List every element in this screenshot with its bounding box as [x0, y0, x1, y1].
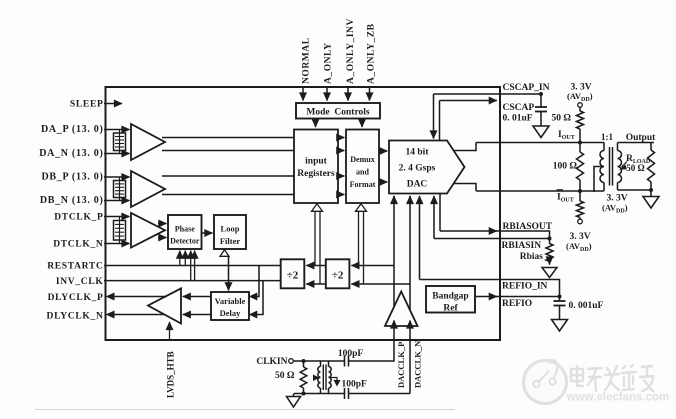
svg-text:www.elecfans.com: www.elecfans.com [566, 392, 669, 404]
svg-text:RBIASOUT: RBIASOUT [503, 222, 553, 232]
svg-text:DTCLK_P: DTCLK_P [54, 213, 103, 223]
svg-text:INV_CLK: INV_CLK [56, 277, 104, 287]
svg-text:CSCAP: CSCAP [503, 103, 535, 113]
svg-text:0. 001uF: 0. 001uF [569, 301, 604, 311]
svg-text:Variable: Variable [215, 296, 246, 306]
svg-text:Delay: Delay [220, 308, 242, 318]
svg-text:input: input [305, 156, 327, 166]
svg-text:1:1: 1:1 [601, 132, 613, 142]
svg-text:100pF: 100pF [338, 349, 364, 359]
svg-text:50 Ω: 50 Ω [552, 114, 572, 124]
svg-text:CLKIN: CLKIN [256, 357, 287, 367]
svg-text:Loop: Loop [221, 224, 240, 234]
svg-text:÷2: ÷2 [287, 269, 299, 281]
svg-text:DACCLK_N: DACCLK_N [413, 340, 423, 388]
svg-text:Registers: Registers [297, 169, 335, 179]
svg-text:and: and [356, 167, 369, 176]
svg-text:0. 01uF: 0. 01uF [503, 114, 533, 124]
svg-text:REFIO_IN: REFIO_IN [502, 281, 548, 291]
svg-text:LVDS_HTB: LVDS_HTB [166, 351, 176, 398]
svg-text:DB_P (13. 0): DB_P (13. 0) [41, 172, 103, 183]
svg-text:Bandgap: Bandgap [432, 291, 468, 301]
svg-text:50 Ω: 50 Ω [275, 371, 295, 381]
svg-text:Rbias: Rbias [520, 252, 544, 262]
svg-text:14 bit: 14 bit [406, 148, 430, 158]
svg-text:CSCAP_IN: CSCAP_IN [503, 83, 550, 93]
svg-text:RBIASIN: RBIASIN [502, 241, 542, 251]
svg-text:DACCLK_P: DACCLK_P [396, 342, 406, 388]
svg-text:Format: Format [350, 180, 376, 189]
svg-text:DTCLK_N: DTCLK_N [53, 240, 103, 250]
svg-text:DB_N (13. 0): DB_N (13. 0) [40, 195, 104, 206]
svg-text:50 Ω: 50 Ω [626, 163, 644, 173]
svg-text:A_ONLY: A_ONLY [324, 43, 334, 85]
svg-text:2. 4 Gsps: 2. 4 Gsps [399, 164, 436, 174]
svg-text:RESTARTC: RESTARTC [47, 262, 103, 272]
svg-text:100pF: 100pF [342, 379, 368, 389]
svg-text:100 Ω: 100 Ω [553, 161, 578, 171]
svg-text:Mode Controls: Mode Controls [306, 107, 369, 117]
svg-text:DA_P (13. 0): DA_P (13. 0) [41, 124, 104, 135]
svg-text:Demux: Demux [350, 155, 374, 164]
svg-text:NORMAL: NORMAL [302, 37, 312, 84]
svg-text:Output: Output [626, 133, 656, 143]
svg-text:A_ONLY_INV: A_ONLY_INV [346, 18, 356, 84]
svg-text:REFIO: REFIO [502, 299, 532, 309]
svg-text:Ref: Ref [443, 303, 458, 313]
svg-text:DA_N (13. 0): DA_N (13. 0) [39, 148, 103, 159]
svg-text:÷2: ÷2 [332, 269, 344, 281]
svg-text:SLEEP: SLEEP [70, 100, 104, 110]
svg-text:Filter: Filter [220, 236, 241, 246]
svg-text:Phase: Phase [175, 224, 195, 233]
svg-text:DLYCLK_P: DLYCLK_P [48, 293, 104, 303]
svg-text:Detector: Detector [170, 236, 200, 245]
svg-text:A_ONLY_ZB: A_ONLY_ZB [367, 23, 377, 84]
svg-text:DAC: DAC [407, 180, 428, 190]
svg-text:DLYCLK_N: DLYCLK_N [47, 312, 104, 322]
